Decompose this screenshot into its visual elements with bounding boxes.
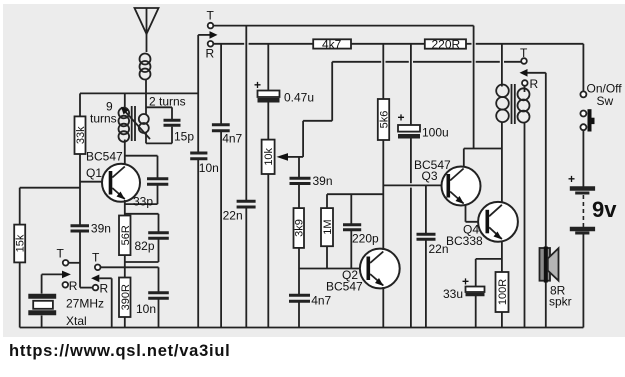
transistor Q4 BC338	[446, 202, 518, 248]
svg-text:5k6: 5k6	[379, 111, 391, 129]
svg-text:Xtal: Xtal	[66, 314, 87, 328]
svg-text:10n: 10n	[136, 302, 156, 316]
transistor Q1 BC547	[86, 150, 140, 202]
svg-text:R: R	[100, 282, 109, 296]
wire base right segment to Q1	[80, 181, 109, 183]
switch SW3 T contact	[520, 46, 528, 64]
capacitor 15p	[164, 107, 195, 143]
resistor 15k	[14, 225, 27, 263]
wire speaker to bus	[545, 283, 547, 328]
svg-text:4k7: 4k7	[322, 37, 342, 51]
wire 100u branch	[410, 44, 412, 125]
transistor Q2 BC547	[326, 249, 400, 294]
capacitor 33u	[443, 275, 485, 302]
wire Q4 collector	[501, 149, 503, 204]
switch SW4 R contact	[93, 282, 109, 296]
svg-text:T: T	[520, 46, 528, 60]
svg-text:33p: 33p	[133, 195, 153, 209]
wire 39n to 3k9	[298, 185, 300, 208]
wire rail drop to switch	[582, 44, 584, 92]
resistor 100R	[496, 272, 510, 312]
resistor 390R	[119, 278, 132, 318]
resistor 3k9	[294, 208, 306, 248]
svg-text:spkr: spkr	[549, 295, 572, 309]
switch SW2 pole line	[198, 31, 217, 39]
switch SW4 pole arrow	[91, 275, 112, 328]
capacitor 82p	[125, 214, 169, 262]
capacitor 4n7 (Q2)	[289, 269, 332, 308]
wire top bus drop right	[473, 26, 475, 149]
capacitor 100u	[398, 111, 449, 140]
resistor 1M	[321, 208, 334, 246]
svg-text:R: R	[69, 279, 78, 293]
wire Q3 collector	[464, 149, 502, 168]
svg-text:390R: 390R	[120, 284, 132, 310]
wire audio T line	[332, 61, 521, 63]
wire 0.47u branch	[267, 44, 269, 90]
svg-text:BC547: BC547	[326, 280, 363, 294]
crystal X1 27MHz	[28, 296, 56, 313]
svg-text:+: +	[398, 111, 405, 125]
switch SW5 On/Off	[580, 91, 594, 131]
wire Q2 base row	[299, 268, 367, 270]
wire T2 primary top	[501, 44, 503, 87]
wire Q2 collector / 5k6 line	[382, 140, 384, 250]
wire Q1 emitter down	[124, 200, 126, 216]
svg-text:Q3: Q3	[422, 169, 438, 183]
svg-text:Q1: Q1	[86, 166, 102, 180]
transistor Q3 BC547	[414, 158, 481, 206]
resistor 56R	[119, 216, 132, 256]
svg-text:BC338: BC338	[446, 234, 483, 248]
svg-text:33u: 33u	[443, 287, 463, 301]
wire 390R to bus	[124, 317, 126, 328]
svg-text:9v: 9v	[592, 197, 617, 222]
svg-text:15k: 15k	[15, 234, 27, 252]
capacitor 220p	[343, 194, 379, 268]
svg-text:100R: 100R	[497, 279, 509, 305]
svg-text:T: T	[207, 9, 215, 23]
transformer T1 secondary 2 turns	[139, 93, 149, 143]
svg-text:3k9: 3k9	[294, 219, 306, 237]
transformer T2 secondary	[518, 86, 530, 328]
switch SW2 T contact	[207, 9, 215, 29]
resistor 4k7	[313, 37, 351, 51]
wire Q1 collector to T1	[124, 140, 126, 166]
wire 33k bottom to base node	[79, 154, 81, 225]
wire SW4 T to 390R node	[101, 266, 159, 268]
potentiometer wiper arrow	[277, 62, 333, 161]
wire 5k6 top to rail	[382, 44, 384, 99]
svg-text:R: R	[206, 47, 215, 61]
wire 4n7 to bus	[220, 132, 222, 328]
wire top bus	[213, 25, 473, 27]
svg-text:4n7: 4n7	[222, 132, 242, 146]
wire 56R to 390R	[124, 255, 126, 277]
switch SW1 R contact	[63, 279, 78, 293]
svg-text:1M: 1M	[322, 219, 334, 234]
svg-text:33k: 33k	[75, 126, 87, 144]
svg-text:27MHz: 27MHz	[66, 297, 104, 311]
wire 4n7 to bus	[298, 303, 300, 328]
wire battery to bus	[582, 235, 584, 328]
capacitor 39n (Q2 input)	[290, 157, 333, 188]
wire ground bus	[20, 327, 584, 329]
switch SW3 R contact	[522, 77, 539, 91]
capacitor 22n (Q3 base)	[417, 185, 449, 327]
wire 22n to bus	[245, 208, 247, 327]
capacitor 10n (antenna line)	[190, 153, 219, 175]
wire 100u to bus (gap at base wire)	[410, 139, 412, 328]
resistor 220R	[425, 37, 466, 51]
svg-text:220p: 220p	[352, 232, 379, 246]
transformer T2 primary	[496, 85, 509, 123]
svg-text:56R: 56R	[120, 225, 132, 245]
switch SW2 R contact	[206, 41, 215, 61]
wire 3k9 to base row	[298, 248, 300, 269]
T1 tuning arrow	[121, 107, 150, 139]
capacitor 10n (390R)	[136, 267, 169, 327]
battery BT1 9v	[568, 172, 617, 233]
wire 15k to ground bus	[19, 262, 21, 327]
svg-text:BC547: BC547	[86, 150, 123, 164]
switch SW4 T contact	[92, 251, 100, 271]
wire antenna line to bus	[197, 160, 199, 328]
resistor 33k	[75, 116, 88, 154]
wire 1M top	[327, 194, 383, 208]
wire 39n down to switch contacts	[79, 233, 81, 288]
switch SW1 T contact	[57, 247, 69, 266]
transformer T1 core	[132, 106, 135, 141]
wire 10k to bus	[267, 174, 269, 328]
wire SW2 pole down (antenna line)	[197, 35, 199, 152]
switch SW1 pole arrow	[42, 271, 71, 279]
wire 33u to bus	[475, 296, 477, 328]
label On/Off Sw	[587, 82, 623, 109]
capacitor 0.47u	[254, 78, 314, 105]
svg-text:82p: 82p	[135, 239, 155, 253]
resistor 5k6	[378, 99, 391, 140]
svg-text:10k: 10k	[263, 147, 275, 165]
svg-text:100u: 100u	[422, 126, 449, 140]
svg-text:+: +	[568, 172, 575, 186]
svg-text:R: R	[530, 77, 539, 91]
transformer T1 primary 9 turns	[119, 93, 130, 141]
wire row corner down to 33k	[79, 93, 81, 116]
antenna loading coil L1	[140, 54, 151, 80]
svg-text:39n: 39n	[91, 222, 111, 236]
svg-text:220R: 220R	[432, 37, 461, 51]
svg-text:4n7: 4n7	[311, 294, 331, 308]
wire to TR switch1 T contact	[69, 262, 81, 264]
label 8R spkr	[549, 284, 572, 309]
capacitor 33p (Q1)	[125, 156, 169, 209]
svg-text:0.47u: 0.47u	[284, 91, 314, 105]
svg-text:T: T	[57, 247, 65, 261]
wire 0.47u to 10k	[267, 103, 269, 140]
label 9 turns	[90, 100, 117, 126]
label 27MHz Xtal	[66, 297, 104, 329]
wire 39n line corner to switch4 R contact	[80, 287, 93, 289]
wire T2 primary bottom	[501, 122, 503, 149]
svg-text:Sw: Sw	[597, 94, 614, 108]
svg-text:turns: turns	[90, 112, 117, 126]
svg-text:T: T	[92, 251, 100, 265]
svg-text:22n: 22n	[223, 209, 243, 223]
wire junction row	[80, 92, 198, 94]
wire 2turns bottom to 15p	[146, 142, 172, 144]
wire crystal bottom to bus	[41, 316, 43, 328]
wire Q4 emitter junction	[476, 241, 502, 287]
wire Q3 base	[383, 184, 446, 186]
capacitor 22n (left)	[223, 201, 256, 222]
transformer T2 core	[512, 84, 515, 124]
capacitor 4n7 (antenna)	[212, 125, 243, 146]
wire antenna to junction row	[145, 80, 147, 94]
wire R rail	[213, 43, 583, 45]
wire switch to battery	[582, 130, 584, 186]
switch SW3 pole arrow	[520, 69, 546, 247]
wire 15k corner down	[19, 188, 21, 225]
wire Q3 emitter to Q4 base	[466, 205, 486, 222]
speaker LS1	[540, 247, 559, 283]
wire base left segment to 15k	[20, 187, 80, 189]
antenna	[135, 8, 159, 52]
wire crystal top	[41, 274, 43, 293]
wire 2turns top to 15p	[146, 106, 172, 108]
svg-text:39n: 39n	[313, 174, 333, 188]
wire 22n branch from top bus	[245, 26, 247, 200]
potentiometer 10k	[262, 140, 276, 174]
wire Q2 emitter to bus	[382, 287, 384, 328]
wire 100R to bus	[501, 312, 503, 328]
capacitor 39n (Q1 base)	[71, 222, 111, 236]
svg-text:https://www.qsl.net/va3iul: https://www.qsl.net/va3iul	[9, 342, 231, 360]
wire 1M to base row	[326, 246, 328, 268]
wire 4n7 branch	[220, 44, 222, 124]
svg-text:15p: 15p	[174, 130, 194, 144]
svg-text:10n: 10n	[199, 161, 219, 175]
